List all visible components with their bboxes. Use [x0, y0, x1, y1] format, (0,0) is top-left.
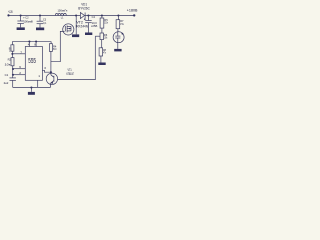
- resistor R1: [11, 45, 14, 54]
- wire pin6: [13, 68, 25, 70]
- node R5 junction: [101, 14, 103, 16]
- resistor R4: [49, 44, 52, 72]
- svg-text:100мкГн: 100мкГн: [58, 9, 68, 13]
- node R7 junction: [117, 14, 119, 16]
- resistor R5: [100, 16, 104, 34]
- node pin6 junction: [12, 68, 14, 70]
- wire gate: [51, 31, 65, 61]
- wire pin2: [13, 74, 25, 76]
- wire pin4 stub: [28, 42, 30, 47]
- svg-text:1: 1: [38, 74, 40, 78]
- svg-text:270к: 270к: [120, 22, 124, 26]
- wire pin8 stub: [35, 42, 37, 47]
- node R1 R2 junction: [11, 53, 13, 55]
- inductor L1: [55, 13, 66, 15]
- capacitor C2: [17, 16, 24, 28]
- wire pin7: [12, 53, 25, 55]
- resistor R8: [99, 48, 103, 63]
- lamp HL1: [113, 32, 124, 43]
- capacitor C4: [84, 16, 92, 33]
- svg-text:100мкФ: 100мкФ: [23, 19, 33, 23]
- node gate node junction: [50, 71, 52, 73]
- ground VT2: [72, 34, 79, 37]
- resistor R7: [116, 16, 120, 32]
- node C4 junction: [87, 14, 89, 16]
- wire lamp bottom: [117, 43, 119, 49]
- IC 555 DA1: [25, 47, 42, 81]
- ground C3: [36, 28, 44, 31]
- resistor R2: [11, 54, 14, 78]
- node ground junction: [30, 86, 32, 88]
- wire top rail right segment: [85, 15, 134, 17]
- ground lamp: [114, 49, 121, 52]
- svg-text:BYV26C: BYV26C: [78, 6, 90, 10]
- svg-text:КТ815Г: КТ815Г: [66, 72, 74, 76]
- svg-text:R2: R2: [8, 58, 12, 62]
- node VD1 anode / VT2 drain junction: [75, 14, 77, 16]
- svg-text:+180В: +180В: [127, 9, 138, 13]
- wire VCC 555 pins 4 8: [12, 42, 51, 45]
- node supply terminal: [7, 14, 9, 16]
- wire feedback to VT1 base: [58, 36, 96, 79]
- wire VT2 drain-source vertical: [75, 16, 77, 35]
- ground C2: [17, 27, 25, 30]
- ground main: [28, 92, 35, 95]
- wire bottom rail: [13, 86, 51, 88]
- svg-text:7: 7: [20, 50, 22, 54]
- capacitor C1: [10, 78, 16, 88]
- svg-text:0,1: 0,1: [43, 21, 46, 25]
- node pin8: [35, 40, 37, 42]
- ground R8: [98, 63, 105, 66]
- svg-text:C4: C4: [92, 15, 96, 19]
- node output terminal: [133, 14, 135, 16]
- diode VD1: [80, 13, 85, 19]
- svg-text:2: 2: [19, 71, 21, 75]
- svg-text:+12В: +12В: [8, 10, 13, 14]
- transistor VT1: [46, 72, 57, 87]
- wire pin3: [42, 70, 51, 72]
- svg-text:555: 555: [28, 56, 36, 65]
- svg-text:L1: L1: [61, 16, 64, 20]
- svg-text:VT2: VT2: [76, 20, 83, 24]
- capacitor C3: [37, 16, 44, 28]
- svg-text:х25В: х25В: [91, 24, 97, 28]
- wire main ground stub: [30, 87, 32, 92]
- svg-text:4: 4: [28, 43, 30, 47]
- wire pin1 stub: [37, 80, 39, 87]
- svg-text:IRFZ44N: IRFZ44N: [76, 25, 89, 29]
- transistor VT2: [63, 24, 74, 35]
- svg-text:220к: 220к: [104, 20, 108, 24]
- svg-text:C1: C1: [5, 73, 9, 77]
- node pin4: [28, 40, 30, 42]
- wire top rail left segment: [8, 15, 80, 17]
- svg-text:120к: 120к: [104, 36, 108, 40]
- svg-text:47к: 47к: [103, 50, 106, 54]
- node C3 junction: [39, 14, 41, 16]
- svg-text:8: 8: [34, 43, 36, 47]
- svg-text:3: 3: [44, 66, 46, 70]
- ground C4: [85, 33, 92, 36]
- trimmer R6: [95, 33, 103, 48]
- svg-text:6: 6: [19, 65, 21, 69]
- svg-text:2н2: 2н2: [4, 81, 9, 85]
- svg-text:10к: 10к: [5, 62, 12, 66]
- node C2 junction: [20, 14, 22, 16]
- node pin2 junction: [12, 74, 14, 76]
- svg-text:510: 510: [53, 47, 57, 51]
